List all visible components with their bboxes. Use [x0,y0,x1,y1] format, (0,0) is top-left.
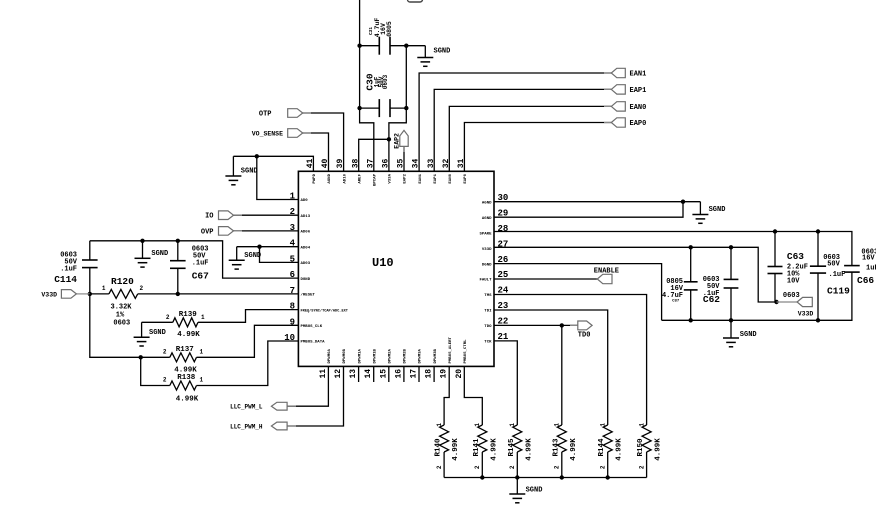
svg-text:SGND: SGND [434,48,451,56]
svg-text:R145: R145 [508,438,516,457]
svg-text:0805: 0805 [386,21,393,37]
svg-text:EAP0: EAP0 [630,120,647,128]
svg-text:U10: U10 [372,256,394,270]
svg-text:BPCAP: BPCAP [374,173,378,186]
svg-text:DPWM0B: DPWM0B [343,348,347,363]
svg-text:14: 14 [364,369,373,379]
svg-text:PMBUS_CLK: PMBUS_CLK [301,325,323,329]
svg-text:R144: R144 [598,438,606,457]
svg-text:.1uF: .1uF [60,266,77,274]
svg-text:DPWM1A: DPWM1A [358,348,362,363]
svg-text:R143: R143 [552,438,560,457]
svg-text:V33D: V33D [798,311,814,318]
svg-text:20: 20 [455,369,464,379]
svg-text:2: 2 [509,465,516,469]
svg-text:4.99K: 4.99K [177,331,200,339]
svg-text:SGND: SGND [709,206,726,214]
svg-text:12: 12 [334,369,343,379]
svg-text:1: 1 [200,349,204,356]
svg-text:1: 1 [509,423,516,427]
svg-text:VO_SENSE: VO_SENSE [252,131,283,138]
svg-text:OVP: OVP [201,228,214,236]
svg-text:LLC_PWM_H: LLC_PWM_H [230,424,263,431]
svg-text:2: 2 [163,377,167,384]
svg-text:SGND: SGND [526,487,543,495]
svg-text:0603: 0603 [113,320,130,328]
svg-text:PMBUS_CTRL: PMBUS_CTRL [464,339,468,364]
svg-text:R150: R150 [637,438,645,457]
svg-text:1: 1 [102,285,106,292]
svg-text:1: 1 [201,314,205,321]
svg-text:AREF: AREF [358,173,362,183]
svg-text:DPWM2A: DPWM2A [389,348,393,363]
svg-text:0603: 0603 [382,74,389,89]
svg-text:OTP: OTP [259,111,272,119]
svg-text:2: 2 [600,465,607,469]
svg-text:3.32K: 3.32K [111,304,133,312]
svg-text:SGND: SGND [151,250,168,258]
svg-text:AGND: AGND [482,217,492,221]
svg-text:EAP2: EAP2 [404,173,408,183]
svg-text:DPWM0A: DPWM0A [328,348,332,363]
svg-text:SPARE: SPARE [479,232,492,236]
svg-text:17: 17 [410,369,419,379]
svg-text:DPWM3B: DPWM3B [434,348,438,363]
svg-text:16V: 16V [862,255,875,263]
svg-text:4.99K: 4.99K [452,438,460,461]
svg-text:V33D: V33D [41,291,57,298]
svg-text:IO: IO [205,213,213,221]
svg-text:18: 18 [425,369,434,379]
svg-text:TMS: TMS [484,294,492,298]
svg-text:LLC_PWM_L: LLC_PWM_L [230,404,263,411]
svg-text:19: 19 [440,369,449,379]
svg-text:4.99K: 4.99K [616,438,624,461]
svg-text:EAP1: EAP1 [434,173,438,183]
svg-text:SGND: SGND [740,331,757,339]
svg-text:1: 1 [474,423,481,427]
svg-text:50V: 50V [827,261,840,269]
svg-text:4.99K: 4.99K [655,438,663,461]
svg-text:PMBUS_ALERT: PMBUS_ALERT [449,336,453,363]
svg-text:DPWM2B: DPWM2B [404,348,408,363]
svg-text:AD03: AD03 [301,262,311,266]
svg-text:ENABLE: ENABLE [594,268,619,276]
svg-text:AD04: AD04 [301,246,311,250]
svg-text:TCK: TCK [484,341,492,345]
svg-text:R139: R139 [179,311,198,319]
svg-text:0603: 0603 [783,292,800,300]
svg-text:C62: C62 [703,294,720,305]
svg-text:2: 2 [436,465,443,469]
svg-text:16: 16 [394,369,403,379]
svg-text:AD06: AD06 [301,231,311,235]
svg-text:V33A: V33A [389,173,393,183]
svg-text:1: 1 [436,423,443,427]
svg-text:TD0: TD0 [578,332,591,340]
svg-text:DGND: DGND [301,278,311,282]
svg-text:PWPD: PWPD [313,173,317,183]
svg-text:EAP2: EAP2 [393,133,400,149]
svg-text:DGND: DGND [482,263,492,267]
svg-text:4.99K: 4.99K [525,438,533,461]
svg-text:/RESET: /RESET [301,293,316,298]
svg-text:AGND: AGND [482,201,492,205]
svg-text:FAULT: FAULT [479,279,492,283]
svg-text:2: 2 [140,285,144,292]
svg-text:C66: C66 [857,275,874,286]
svg-text:AD0: AD0 [301,199,309,203]
svg-text:2: 2 [166,314,170,321]
svg-text:TDO: TDO [484,325,492,329]
svg-text:2: 2 [474,465,481,469]
svg-text:2: 2 [163,349,167,356]
svg-text:DPWM1B: DPWM1B [373,348,377,363]
svg-text:C67: C67 [192,271,209,282]
svg-text:10V: 10V [787,278,800,286]
svg-text:EAN0: EAN0 [449,173,453,183]
svg-text:SGND: SGND [149,329,166,337]
svg-text:R137: R137 [176,346,194,354]
svg-text:AGND: AGND [328,173,332,183]
svg-text:EAN1: EAN1 [419,173,423,183]
svg-text:C114: C114 [54,274,77,285]
svg-text:C63: C63 [787,251,804,262]
svg-text:PMBUS_DATA: PMBUS_DATA [301,341,326,345]
svg-text:1%: 1% [116,312,125,320]
svg-text:2: 2 [638,465,645,469]
svg-text:DPWM3A: DPWM3A [419,348,423,363]
svg-text:11: 11 [319,369,328,379]
svg-text:28: 28 [498,224,509,234]
svg-text:C119: C119 [827,286,850,297]
svg-text:EAP1: EAP1 [630,87,647,95]
svg-text:EAN1: EAN1 [630,71,647,79]
svg-text:4.99K: 4.99K [570,438,578,461]
svg-text:R141: R141 [473,438,481,457]
svg-text:1: 1 [200,377,204,384]
svg-text:4.99K: 4.99K [490,438,498,461]
svg-text:13: 13 [349,369,358,379]
svg-text:4.99K: 4.99K [176,396,199,404]
svg-text:AD13: AD13 [301,215,311,219]
svg-text:.1uF: .1uF [829,271,846,279]
svg-text:1: 1 [638,423,645,427]
svg-text:SGND: SGND [241,168,258,176]
svg-text:C87: C87 [672,300,680,304]
svg-text:FREQ/SYNC/TCAP/ADC_EXT: FREQ/SYNC/TCAP/ADC_EXT [301,308,349,313]
svg-text:15: 15 [379,369,388,379]
svg-text:1: 1 [554,423,561,427]
svg-text:SGND: SGND [244,252,261,260]
svg-text:AD10: AD10 [343,173,347,183]
svg-text:V33D: V33D [482,248,492,252]
svg-text:R140: R140 [435,438,443,457]
svg-text:.1uF: .1uF [192,260,209,268]
svg-text:1uF: 1uF [866,265,876,273]
svg-text:2: 2 [554,465,561,469]
svg-text:1: 1 [600,423,607,427]
svg-text:EAP0: EAP0 [464,173,468,183]
svg-text:TDI: TDI [484,310,492,314]
svg-text:R120: R120 [111,276,134,287]
svg-text:EAN0: EAN0 [630,104,647,112]
svg-text:R138: R138 [177,374,196,382]
